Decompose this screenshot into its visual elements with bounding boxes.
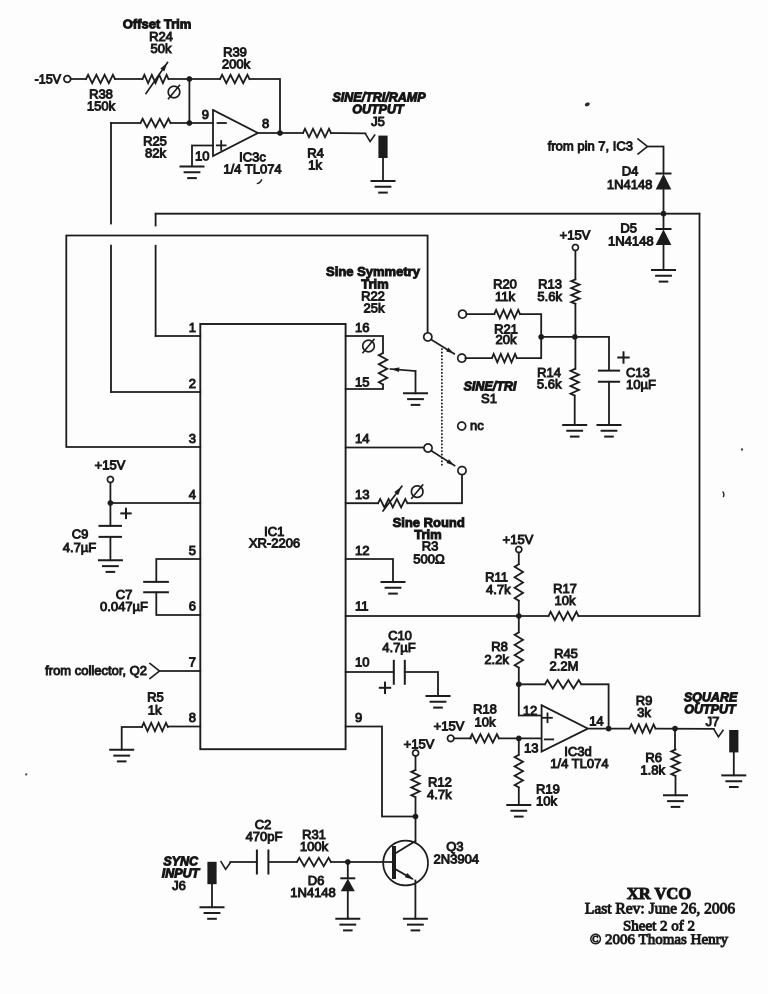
svg-text:2: 2 bbox=[189, 376, 196, 391]
wire bbox=[71, 78, 86, 80]
node A (R24/R39 junction) bbox=[187, 76, 193, 82]
resistor R39 200k bbox=[220, 75, 250, 83]
svg-text:10: 10 bbox=[355, 655, 369, 670]
svg-text:0.047µF: 0.047µF bbox=[100, 599, 148, 614]
jack J5 SINE/TRI/RAMP OUTPUT bbox=[366, 134, 375, 142]
wire bbox=[499, 737, 542, 739]
capacitor C10 4.7uF polarized bbox=[346, 671, 394, 673]
wire (pin 14 to S1b) bbox=[346, 447, 424, 449]
resistor R31 100k bbox=[297, 858, 331, 866]
wire bbox=[109, 483, 111, 504]
ground (R19) bbox=[507, 804, 530, 806]
resistor R21 20k bbox=[465, 357, 492, 359]
scan speck bbox=[722, 492, 725, 497]
svg-text:14: 14 bbox=[355, 431, 369, 446]
scan speck bbox=[25, 773, 27, 775]
resistor R45 2.2M bbox=[519, 683, 545, 685]
svg-text:3: 3 bbox=[189, 431, 196, 446]
capacitor C9 4.7uF polarized bbox=[109, 503, 111, 526]
node (collector/R12/pin9) bbox=[413, 814, 419, 820]
svg-text:4.7µF: 4.7µF bbox=[382, 640, 416, 655]
svg-text:20k: 20k bbox=[496, 332, 517, 347]
svg-text:8: 8 bbox=[262, 116, 269, 131]
trimmer mark for R3 bbox=[411, 486, 423, 498]
svg-text:150k: 150k bbox=[87, 99, 116, 114]
resistor R12 4.7k bbox=[415, 756, 417, 770]
ground (D6) bbox=[336, 918, 359, 920]
switch S1a common (from pin3 loop) bbox=[424, 333, 432, 341]
switch S1b common bbox=[424, 444, 432, 452]
wire bbox=[250, 79, 281, 133]
wire bbox=[574, 251, 576, 280]
resistor R38 150k bbox=[86, 75, 115, 83]
terminal (R20 input) bbox=[459, 310, 467, 318]
svg-text:1k: 1k bbox=[148, 703, 162, 718]
svg-text:6: 6 bbox=[189, 599, 196, 614]
wire bbox=[579, 615, 700, 617]
wire bbox=[268, 861, 297, 863]
svg-text:11k: 11k bbox=[495, 289, 515, 304]
wire bbox=[188, 79, 190, 123]
svg-text:J7: J7 bbox=[706, 714, 720, 729]
node (R8/R45/pin12 IC3d) bbox=[516, 681, 522, 687]
node (pin4/C9) bbox=[108, 500, 114, 506]
svg-text:J6: J6 bbox=[172, 878, 186, 893]
trimpot R22 25k Sine Symmetry Trim bbox=[346, 336, 383, 353]
resistor R6 1.8k bbox=[674, 729, 676, 750]
resistor R14 5.6k bbox=[571, 369, 579, 396]
capacitor C2 470pF bbox=[256, 851, 258, 874]
trimmer mark for R24 bbox=[168, 86, 180, 98]
svg-text:Last Rev: June 26, 2006: Last Rev: June 26, 2006 bbox=[585, 900, 735, 917]
transistor Q3 2N3904 bbox=[383, 841, 428, 886]
trimpot R24 50k Offset Trim bbox=[143, 75, 169, 83]
svg-text:+15V: +15V bbox=[560, 227, 591, 242]
svg-text:2.2k: 2.2k bbox=[484, 652, 509, 667]
ground (C10) bbox=[427, 695, 450, 697]
wire (pin 1 net rail) bbox=[156, 213, 700, 215]
svg-text:from collector, Q2: from collector, Q2 bbox=[45, 663, 147, 678]
wire bbox=[331, 861, 347, 863]
svg-text:8: 8 bbox=[189, 710, 196, 725]
svg-text:5.6k: 5.6k bbox=[537, 289, 562, 304]
svg-text:25k: 25k bbox=[364, 301, 385, 316]
switch S1a throw bbox=[458, 354, 466, 362]
ground (Q3 emitter) bbox=[404, 918, 427, 920]
trimmer mark for R22 bbox=[363, 340, 375, 352]
svg-text:12: 12 bbox=[523, 703, 537, 718]
resistor R8 2.2k bbox=[515, 632, 523, 667]
svg-text:2N3904: 2N3904 bbox=[434, 851, 480, 866]
svg-text:11: 11 bbox=[355, 599, 369, 614]
wire bbox=[171, 122, 214, 124]
node (R13/R14 junction) bbox=[572, 334, 578, 340]
svg-text:1: 1 bbox=[189, 320, 196, 335]
resistor R9 3k bbox=[630, 724, 656, 732]
ground (pin 12) bbox=[382, 581, 405, 583]
wire (output) bbox=[258, 132, 303, 134]
svg-text:1.8k: 1.8k bbox=[640, 762, 665, 777]
svg-text:50k: 50k bbox=[151, 41, 172, 56]
switch S1b throw bbox=[458, 467, 466, 475]
node (pin9 junction) bbox=[187, 120, 193, 126]
wire bbox=[407, 475, 462, 504]
ground (C9) bbox=[99, 559, 122, 561]
wire (pin 12) bbox=[346, 559, 393, 582]
svg-text:1/4 TL074: 1/4 TL074 bbox=[550, 756, 608, 771]
resistor R18 10k bbox=[454, 737, 471, 739]
wire bbox=[169, 78, 221, 80]
svg-text:13: 13 bbox=[524, 741, 538, 756]
svg-text:16: 16 bbox=[355, 320, 369, 335]
svg-text:4.7k: 4.7k bbox=[486, 582, 511, 597]
svg-text:100k: 100k bbox=[300, 839, 329, 854]
resistor R19 10k bbox=[518, 738, 520, 754]
node (pin13/R19) bbox=[516, 736, 522, 742]
node (R31/D6/base) bbox=[345, 859, 351, 865]
wire (R45 to output) bbox=[581, 684, 608, 728]
svg-text:200k: 200k bbox=[222, 56, 251, 71]
svg-text:10µF: 10µF bbox=[626, 377, 656, 392]
svg-text:1/4 TL074: 1/4 TL074 bbox=[223, 162, 281, 177]
wire (pin 2 riser) bbox=[110, 123, 112, 224]
svg-text:1N4148: 1N4148 bbox=[290, 885, 336, 900]
jack J7 SQUARE OUTPUT bbox=[714, 729, 723, 737]
wire (R25 left riser to pin 2) bbox=[111, 122, 141, 124]
svg-text:500Ω: 500Ω bbox=[413, 552, 445, 567]
node (R45 feedback at output) bbox=[606, 726, 612, 732]
wire (pin 3 loop) bbox=[66, 236, 427, 448]
resistor R25 82k bbox=[141, 119, 171, 127]
mechanical link (dotted) bbox=[441, 349, 443, 466]
svg-text:4.7k: 4.7k bbox=[427, 787, 452, 802]
wire (right riser) bbox=[699, 214, 701, 616]
ground (R14) bbox=[563, 424, 586, 426]
svg-text:82k: 82k bbox=[145, 146, 166, 161]
wire bbox=[520, 314, 541, 337]
svg-text:J5: J5 bbox=[371, 114, 385, 129]
node (R20/R21 junction) bbox=[538, 334, 544, 340]
ground (R6) bbox=[664, 794, 687, 796]
ground (below D5) bbox=[652, 269, 675, 271]
svg-text:10k: 10k bbox=[536, 794, 557, 809]
wire bbox=[517, 337, 541, 358]
svg-text:+15V: +15V bbox=[503, 532, 534, 547]
wire (IC3d output) bbox=[588, 728, 629, 730]
wire bbox=[648, 147, 664, 174]
capacitor C7 0.047uF bbox=[156, 559, 200, 582]
resistor R17 10k bbox=[519, 615, 549, 617]
svg-text:4.7µF: 4.7µF bbox=[63, 540, 97, 555]
diode D5 1N4148 bbox=[663, 214, 665, 229]
svg-text:5.6k: 5.6k bbox=[537, 376, 562, 391]
svg-text:+15V: +15V bbox=[434, 718, 465, 733]
wire bbox=[160, 670, 201, 672]
wire bbox=[574, 396, 576, 425]
wire (to + input) bbox=[519, 684, 542, 715]
svg-text:+15V: +15V bbox=[404, 737, 435, 752]
svg-text:12: 12 bbox=[355, 543, 369, 558]
wire (pin 11) bbox=[346, 615, 519, 617]
wire (pin10 to ground) bbox=[192, 146, 213, 167]
diode D6 1N4148 bbox=[347, 862, 349, 878]
wiper arrow R22 bbox=[391, 369, 416, 371]
node (pin11/R11/R17/R8) bbox=[516, 613, 522, 619]
svg-text:© 2006 Thomas Henry: © 2006 Thomas Henry bbox=[590, 932, 729, 948]
ground (C13) bbox=[598, 424, 621, 426]
wire (pin 9) bbox=[346, 727, 416, 817]
scan speck bbox=[584, 102, 590, 107]
wire bbox=[331, 132, 366, 134]
svg-text:+15V: +15V bbox=[95, 458, 126, 473]
svg-text:1N4148: 1N4148 bbox=[608, 233, 654, 248]
diode D4 1N4148 bbox=[657, 173, 671, 175]
op-amp IC3c 1/4 TL074 bbox=[213, 110, 258, 156]
svg-text:S1: S1 bbox=[481, 391, 497, 406]
scan speck bbox=[258, 180, 262, 184]
svg-text:10: 10 bbox=[195, 149, 209, 164]
svg-text:XR-2206: XR-2206 bbox=[249, 535, 300, 550]
svg-text:1N4148: 1N4148 bbox=[607, 177, 653, 192]
svg-text:7: 7 bbox=[189, 655, 196, 670]
op-amp IC3d 1/4 TL074 bbox=[542, 705, 588, 751]
resistor R5 1k bbox=[168, 726, 200, 728]
svg-text:from pin 7, IC3: from pin 7, IC3 bbox=[548, 139, 633, 154]
svg-text:10k: 10k bbox=[475, 715, 496, 730]
svg-text:1k: 1k bbox=[308, 158, 322, 173]
svg-text:10k: 10k bbox=[555, 593, 576, 608]
wire bbox=[541, 336, 575, 338]
svg-text:5: 5 bbox=[189, 543, 196, 558]
wire bbox=[518, 553, 520, 565]
ground (IC3c pin10) bbox=[181, 166, 204, 168]
svg-text:9: 9 bbox=[355, 710, 362, 725]
trimpot R3 500 ohm Sine Round Trim bbox=[346, 502, 379, 504]
resistor R13 5.6k bbox=[571, 279, 579, 303]
resistor R11 4.7k bbox=[515, 564, 523, 601]
svg-text:9: 9 bbox=[202, 107, 209, 122]
node (output junction) bbox=[277, 130, 283, 136]
ground (R5) bbox=[110, 749, 133, 751]
wire bbox=[518, 601, 520, 633]
wire to C13 bbox=[575, 337, 609, 371]
svg-text:13: 13 bbox=[355, 487, 369, 502]
svg-text:2.2M: 2.2M bbox=[550, 658, 579, 673]
switch S1b arm bbox=[431, 451, 454, 466]
switch S1a arm bbox=[431, 340, 454, 354]
svg-text:4: 4 bbox=[189, 487, 196, 502]
wire bbox=[230, 861, 257, 863]
terminal nc bbox=[458, 422, 466, 430]
resistor R4 1k bbox=[303, 129, 331, 137]
svg-text:470pF: 470pF bbox=[246, 829, 283, 844]
scan speck bbox=[741, 448, 743, 450]
wire bbox=[574, 304, 576, 369]
wire bbox=[115, 78, 143, 80]
capacitor C13 10uF polarized bbox=[599, 370, 619, 372]
resistor R20 11k bbox=[466, 313, 494, 315]
wire bbox=[518, 668, 520, 685]
ground (R22 wiper) bbox=[404, 392, 427, 394]
svg-text:nc: nc bbox=[470, 418, 484, 433]
node (R9/R6/J7) bbox=[672, 726, 678, 732]
wire (pin 1 riser) bbox=[155, 214, 157, 226]
wire bbox=[656, 728, 714, 730]
svg-text:14: 14 bbox=[589, 714, 603, 729]
wire (base) bbox=[348, 861, 394, 863]
svg-text:3k: 3k bbox=[637, 705, 651, 720]
svg-text:-15V: -15V bbox=[35, 73, 62, 87]
jack J6 SYNC INPUT bbox=[207, 862, 216, 884]
node (D4/D5 junction on pin1 net) bbox=[661, 211, 667, 217]
svg-text:15: 15 bbox=[355, 375, 369, 390]
wire bbox=[122, 727, 142, 750]
IC IC1 XR-2206 bbox=[200, 324, 345, 749]
